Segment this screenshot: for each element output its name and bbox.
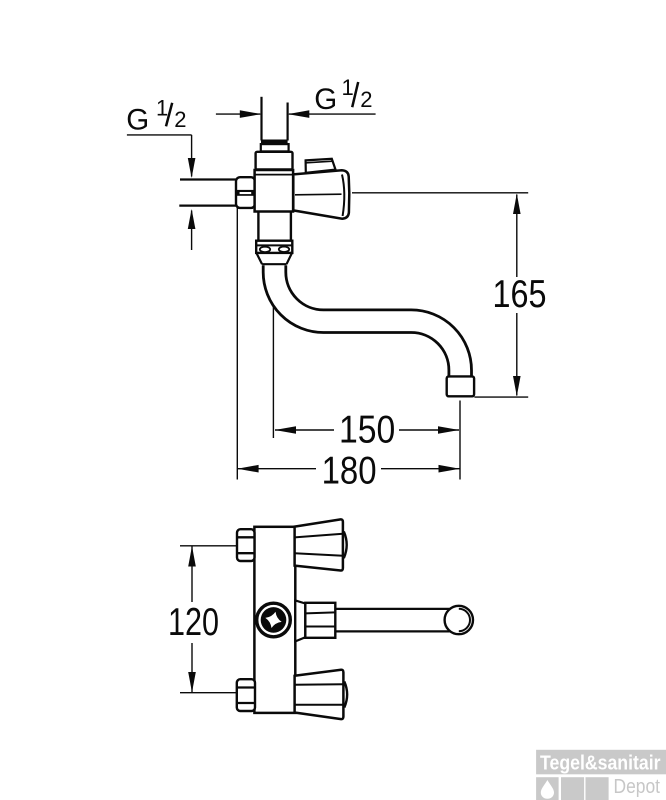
svg-text:180: 180 xyxy=(322,450,377,493)
handle cone cap arc xyxy=(342,175,344,217)
screw star xyxy=(263,610,283,630)
union nut top (front view) xyxy=(237,529,255,561)
spout outlet (aerator) xyxy=(447,376,474,396)
dimension 150 xyxy=(275,426,460,434)
flange screw right xyxy=(279,247,289,252)
label G 1/2 (left) xyxy=(126,96,186,137)
spout collar (front view) xyxy=(295,600,305,641)
spout nut facet lines xyxy=(305,612,335,613)
logo band xyxy=(536,750,666,775)
handle cone (side view) xyxy=(293,170,349,218)
extension line for 150/180 right (outlet axis) xyxy=(459,401,461,480)
screw inner disc xyxy=(261,607,287,633)
spout nut (front view) xyxy=(305,603,335,638)
dimension 165 xyxy=(513,194,521,397)
extension line for 180 (wall line) xyxy=(236,208,238,480)
screw escutcheon outer circle xyxy=(257,603,291,637)
svg-text:Depot: Depot xyxy=(614,776,661,798)
svg-text:G: G xyxy=(314,83,337,116)
extension line bottom (outlet, for 165) xyxy=(474,396,528,398)
svg-text:2: 2 xyxy=(360,87,372,112)
svg-text:1: 1 xyxy=(342,75,354,100)
spout end cap inner ring xyxy=(459,609,470,631)
pipe collar (black) below supply pipe xyxy=(261,140,288,145)
logo square 2 xyxy=(561,777,584,800)
union nut bottom (front view) xyxy=(237,679,255,711)
handle cone top (front view) xyxy=(295,519,343,570)
logo square 3 xyxy=(586,777,609,800)
spout end cap outer circle xyxy=(445,606,473,634)
spout tube (front view) xyxy=(335,609,450,632)
spout tube (S curve) xyxy=(274,265,460,380)
body top collar line xyxy=(255,174,294,176)
flange screw left xyxy=(260,247,270,252)
handle knob (side view, top) xyxy=(306,159,336,173)
valve body xyxy=(255,170,294,212)
body plate (front view) xyxy=(254,527,295,713)
spout flange xyxy=(256,241,292,253)
handle axis facet line xyxy=(295,193,342,196)
svg-text:Tegel&sanitair: Tegel&sanitair xyxy=(540,752,661,775)
logo drop icon xyxy=(541,780,554,799)
dimension 180 xyxy=(237,465,459,473)
bottom cone cap bulge xyxy=(344,682,347,708)
flange top band line xyxy=(256,244,292,246)
union nut (side view) xyxy=(236,177,255,208)
dimension 120 xyxy=(188,546,196,693)
svg-text:120: 120 xyxy=(168,601,219,644)
extension line for 150 (spout axis) xyxy=(272,307,274,438)
supply pipe (top vertical) xyxy=(262,97,288,141)
spout neck xyxy=(258,212,291,241)
bottom cone facet lines xyxy=(295,683,344,686)
svg-text:2: 2 xyxy=(174,107,186,132)
extension line top (axis, for 165) xyxy=(352,192,528,194)
logo square 1 xyxy=(536,777,559,800)
wall supply pipe (left horizontal) xyxy=(179,180,237,206)
leader for left G 1/2 xyxy=(127,135,195,250)
svg-text:G: G xyxy=(126,104,149,137)
top cone facet lines xyxy=(295,534,343,538)
dimension arrows G1/2 top xyxy=(216,110,376,118)
valve bonnet xyxy=(256,152,293,170)
pipe collar (white ring) xyxy=(261,144,289,151)
extension lines for 120 xyxy=(180,546,236,693)
fraction slash (left label) xyxy=(166,103,172,127)
svg-text:1: 1 xyxy=(156,96,168,121)
label G 1/2 (top right) xyxy=(314,75,372,116)
svg-text:150: 150 xyxy=(339,409,395,452)
spout taper xyxy=(257,253,292,264)
fraction slash (top right label) xyxy=(352,82,358,107)
svg-text:165: 165 xyxy=(493,273,547,316)
top cone cap bulge xyxy=(344,532,347,559)
handle cone bottom (front view) xyxy=(295,670,344,719)
